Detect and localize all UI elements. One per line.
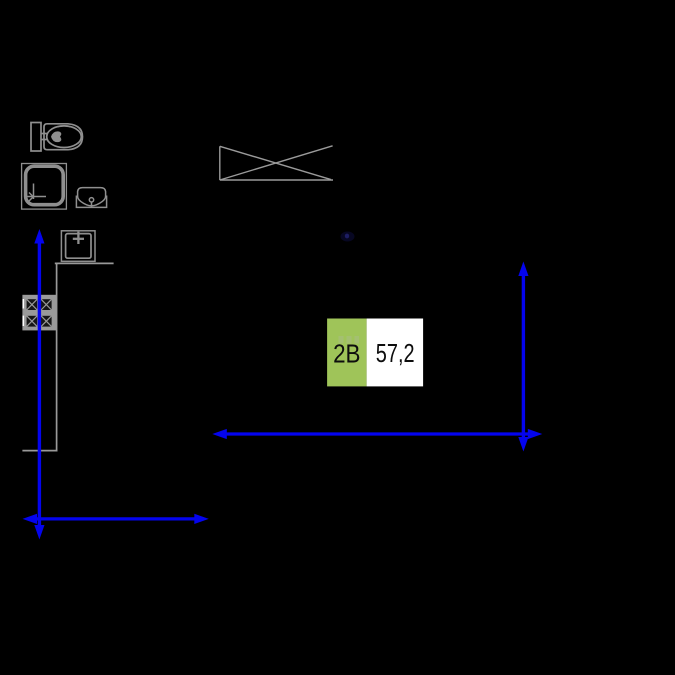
apartment label white cell — [367, 319, 424, 387]
svg-text:57,2: 57,2 — [376, 338, 415, 368]
water heater box with plus — [61, 231, 95, 261]
toilet — [31, 123, 83, 152]
faint marks in green cell — [339, 336, 360, 344]
washbasin — [76, 188, 106, 208]
faint blue dot — [341, 232, 355, 242]
dimension arrow vertical right — [518, 262, 528, 452]
shower tray — [22, 164, 67, 210]
wall bottom horizontal — [22, 450, 57, 452]
dimension arrow vertical left — [34, 229, 44, 540]
wall top horizontal — [55, 262, 114, 264]
dimension arrow horizontal main — [212, 429, 542, 439]
apartment label green cell — [327, 319, 367, 387]
svg-text:2B: 2B — [333, 339, 360, 369]
wall vertical — [56, 263, 58, 452]
window symbol — [220, 146, 333, 180]
dimension arrow horizontal bottom-left — [23, 514, 209, 524]
shaft hatch block — [22, 295, 56, 331]
